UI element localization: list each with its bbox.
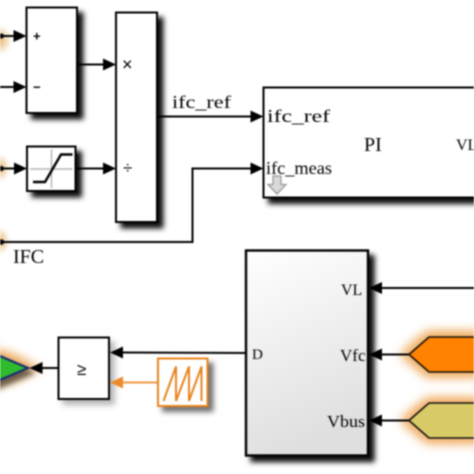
wire: IFC signal horizontal segment [0,241,193,243]
wire: sum output to product x input [77,64,106,66]
arrowhead: into converter Vbus input [369,415,382,427]
wire: yellow from tag to Vbus input [381,420,410,422]
saturation icon axes [30,150,73,189]
product block P1 [116,13,157,223]
glow halo around yellow from tag F2 [388,390,474,450]
arrowhead: into product divide input [103,163,116,175]
svg-text:÷: ÷ [123,159,132,178]
glow halo at sum + input (cropped tag) [0,23,14,57]
wire: IFC signal vertical segment [192,169,194,244]
svg-text:IFC: IFC [13,246,44,268]
orange from tag F1 [409,337,474,372]
svg-text:≥: ≥ [77,360,86,379]
green goto tag G1 [0,351,28,385]
arrowhead: into sum input 1 [14,30,27,42]
arrowhead: into product x input [103,59,116,71]
saturation icon curve [33,155,73,183]
converter subsystem block [246,251,368,456]
svg-text:+: + [33,29,41,44]
junction dot at IFC line start [0,239,4,245]
svg-text:PI: PI [364,134,382,156]
wire: VL input line from right edge [381,287,474,289]
svg-text:VL: VL [341,282,362,299]
wire: saturation output to product divide input [76,168,107,170]
sawtooth repeating sequence block [158,359,208,407]
svg-text:Vfc: Vfc [340,346,366,365]
arrowhead: into PI ifc_ref input [251,111,264,123]
wire: D output of converter block to relational operator input 1 [122,352,247,355]
arrowhead: into saturation input [14,163,27,175]
svg-text:−: − [33,80,41,95]
PI block gray dropdown arrow icon [268,176,286,194]
arrowhead: into sum input 2 [14,81,27,93]
wire: sawtooth output to relational operator input 2 (orange) [121,382,158,384]
arrowhead: into converter VL input [369,282,382,294]
relational operator block (>=) [59,338,110,400]
junction dot at saturation input line start [0,166,4,171]
arrowhead: into converter Vfc input [369,349,382,361]
wire: orange from tag to Vfc input [381,354,410,356]
svg-text:Vbus: Vbus [327,412,365,431]
sawtooth waveform [164,367,202,402]
arrowhead: into relational operator input 2 (orange) [110,377,123,389]
arrowhead: into relational operator input 1 [110,347,123,359]
sum block [27,8,78,114]
wire: input 2 to sum block [0,86,16,88]
saturation block [27,147,76,192]
wire: input 1 to sum block [0,35,16,37]
wire: input to saturation block [0,168,17,170]
arrowhead: into green goto tag [30,362,43,374]
glow halo around orange from tag F1 [388,321,474,385]
svg-text:D: D [252,347,263,363]
wire: relational operator output to green goto tag [40,367,59,369]
yellow from tag F2 [409,403,474,438]
svg-text:ifc_ref: ifc_ref [267,106,330,126]
glow halo at saturation input (cropped tag) [0,152,12,184]
arrowhead: into PI ifc_meas input [251,163,264,175]
svg-text:ifc_ref: ifc_ref [172,92,231,112]
glow halo around green goto tag G1 [0,343,40,393]
wire: IFC signal to PI ifc_meas input [192,168,254,170]
svg-text:×: × [122,55,133,75]
junction dot at sum input 1 line start [0,33,4,38]
wire: ifc_ref from product output to PI input 1 [157,116,253,118]
PI block U1 [264,88,474,198]
svg-text:ifc_meas: ifc_meas [266,158,332,178]
svg-text:VL: VL [456,137,474,154]
glow halo at IFC line start (cropped tag) [0,225,12,257]
